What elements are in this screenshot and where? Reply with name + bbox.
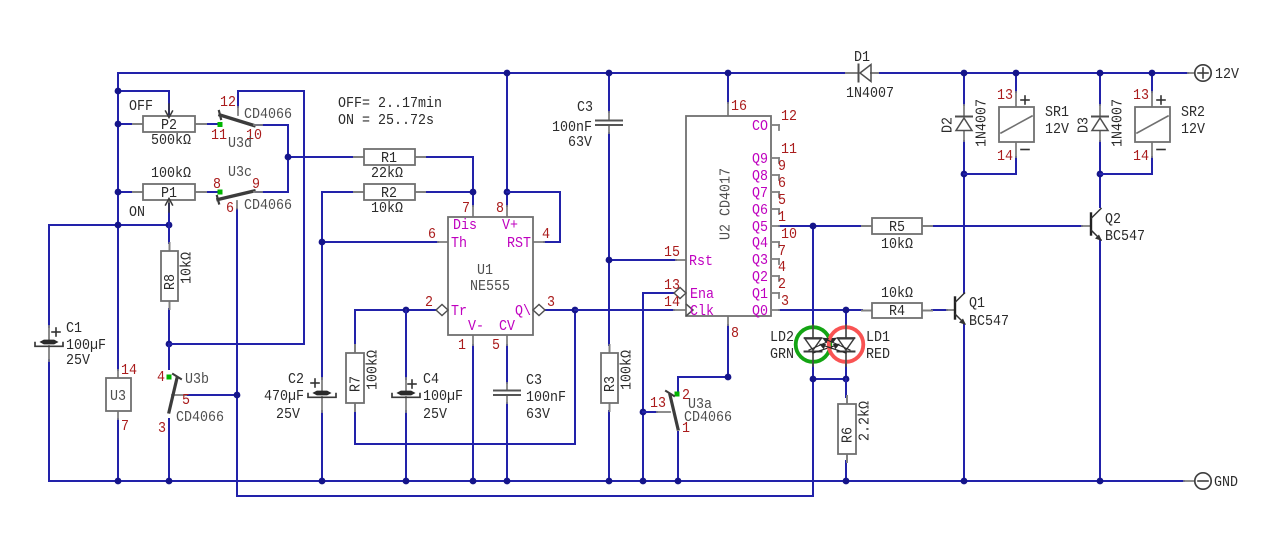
node junction (575,310) — [572, 307, 579, 314]
diode D2 1N4007 — [940, 99, 991, 147]
wire P2 right to U3d pin11 — [205, 123, 218, 125]
node junction (813,226) — [810, 223, 817, 230]
wire P1 right to U3c pin8 — [205, 191, 218, 193]
svg-text:100kΩ: 100kΩ — [151, 165, 191, 182]
wire R2 left — [322, 191, 354, 193]
wire control feed to U3d pin12 — [169, 91, 304, 344]
node junction (406,310) — [403, 307, 410, 314]
node junction (473,192) — [470, 189, 477, 196]
svg-text:U2 CD4017: U2 CD4017 — [718, 168, 735, 240]
ic U3 CD4066 power box — [106, 362, 137, 435]
svg-text:U3b: U3b — [185, 371, 209, 388]
svg-text:R3: R3 — [602, 376, 619, 392]
node junction (964,73) — [961, 70, 968, 77]
svg-text:CD4066: CD4066 — [244, 197, 292, 214]
capacitor C3 bottom 100nF — [494, 372, 566, 423]
node junction (643,481) — [640, 478, 647, 485]
svg-text:Q0: Q0 — [752, 303, 768, 320]
svg-text:100µF: 100µF — [423, 388, 463, 405]
note timing text — [338, 95, 442, 129]
node junction (507,192) — [504, 189, 511, 196]
svg-text:C2: C2 — [288, 371, 304, 388]
svg-text:500kΩ: 500kΩ — [151, 132, 191, 149]
wire SR1 top link — [1015, 73, 1017, 92]
svg-text:2.2kΩ: 2.2kΩ — [857, 401, 874, 441]
svg-text:Q4: Q4 — [752, 235, 768, 252]
node junction (846,379) — [843, 376, 850, 383]
svg-text:C3: C3 — [526, 372, 542, 389]
svg-text:C3: C3 — [577, 99, 593, 116]
resistor R6 — [838, 396, 874, 462]
wire C1 branch — [48, 225, 50, 481]
node junction (1100,481) — [1097, 478, 1104, 485]
wire GND rail — [49, 480, 1184, 482]
svg-text:R6: R6 — [840, 427, 857, 443]
svg-text:7: 7 — [778, 243, 786, 260]
resistor R5 — [862, 218, 932, 253]
svg-text:Q5: Q5 — [752, 219, 768, 236]
node junction (169,344) — [166, 341, 173, 348]
relay SR2 — [1133, 87, 1205, 165]
svg-text:C1: C1 — [66, 320, 82, 337]
wire R4 to Q1 base — [932, 309, 947, 311]
node junction (118,91) — [115, 88, 122, 95]
wire Q2 emitter to GND — [1099, 241, 1101, 481]
wire U1 pin5 CV to C3b — [506, 345, 508, 481]
node junction (678,481) — [675, 478, 682, 485]
svg-text:D3: D3 — [1076, 117, 1093, 133]
node junction (118,481) — [115, 478, 122, 485]
svg-text:25V: 25V — [276, 406, 300, 423]
resistor R3 — [601, 345, 636, 411]
node junction (322,242) — [319, 239, 326, 246]
svg-text:V-: V- — [468, 318, 484, 335]
svg-text:U1: U1 — [477, 262, 493, 279]
wire R3 bottom — [608, 411, 610, 481]
node junction (609,481) — [606, 478, 613, 485]
node junction (507,481) — [504, 478, 511, 485]
svg-text:CV: CV — [499, 318, 515, 335]
wire Th/C2 column — [321, 192, 323, 481]
node junction (473,481) — [470, 478, 477, 485]
svg-text:9: 9 — [252, 176, 260, 193]
svg-text:1N4007: 1N4007 — [974, 99, 991, 147]
node junction (964,174) — [961, 171, 968, 178]
wire P1 wiper feed — [168, 204, 170, 225]
svg-text:Q1: Q1 — [752, 286, 768, 303]
wire Q0 output — [779, 309, 862, 311]
svg-text:LD2: LD2 — [770, 329, 794, 346]
svg-text:13: 13 — [664, 277, 680, 294]
wire P2 left terminal — [118, 123, 134, 125]
wire LED cathode bar — [813, 378, 846, 380]
resistor R7 — [346, 345, 382, 411]
wire R1 right to U1 pin7 — [425, 157, 473, 206]
node junction (609,73) — [606, 70, 613, 77]
svg-text:LD1: LD1 — [866, 329, 890, 346]
svg-text:Q\: Q\ — [515, 303, 531, 320]
wire U2 pin8 to U3a pin2 — [678, 325, 728, 391]
svg-text:10kΩ: 10kΩ — [881, 285, 913, 302]
node junction (1100,174) — [1097, 171, 1104, 178]
svg-text:Th: Th — [451, 235, 467, 252]
node junction (169,225) — [166, 222, 173, 229]
svg-text:10kΩ: 10kΩ — [881, 236, 913, 253]
svg-text:GND: GND — [1214, 474, 1238, 491]
wire U3a control link — [643, 411, 657, 413]
svg-text:100kΩ: 100kΩ — [619, 350, 636, 390]
wire D2/SR1 column — [963, 73, 965, 293]
svg-text:4: 4 — [157, 369, 165, 386]
svg-text:OFF= 2..17min: OFF= 2..17min — [338, 95, 442, 112]
svg-text:R8: R8 — [162, 274, 179, 290]
relay SR1 — [997, 87, 1069, 165]
node junction (118,192) — [115, 189, 122, 196]
wire SR2 bottom link — [1100, 157, 1152, 174]
svg-text:12V: 12V — [1181, 121, 1205, 138]
svg-text:12V: 12V — [1045, 121, 1069, 138]
svg-text:RST: RST — [507, 235, 531, 252]
svg-text:9: 9 — [778, 158, 786, 175]
svg-text:OFF: OFF — [129, 98, 153, 115]
svg-text:V+: V+ — [502, 217, 518, 234]
diode D1 — [846, 49, 894, 102]
wire LED return bus y=496 — [237, 379, 813, 496]
wire +12V rail right segment — [880, 72, 1188, 74]
svg-text:12: 12 — [220, 94, 236, 111]
svg-text:Tr: Tr — [451, 303, 467, 320]
svg-text:3: 3 — [547, 294, 555, 311]
svg-text:ON: ON — [129, 204, 145, 221]
node junction (507,73) — [504, 70, 511, 77]
svg-text:13: 13 — [1133, 87, 1149, 104]
svg-text:63V: 63V — [568, 134, 592, 151]
svg-text:D2: D2 — [940, 117, 957, 133]
wire LD1 anode drop — [845, 310, 847, 379]
svg-text:Q9: Q9 — [752, 151, 768, 168]
wire U2 pin16 from rail — [727, 73, 729, 103]
svg-text:8: 8 — [731, 325, 739, 342]
node junction (1152,73) — [1149, 70, 1156, 77]
svg-text:25V: 25V — [66, 352, 90, 369]
svg-text:12V: 12V — [1215, 66, 1239, 83]
wire SR2 top link — [1151, 73, 1153, 92]
svg-text:6: 6 — [428, 226, 436, 243]
wire C4 bottom link — [405, 411, 407, 481]
resistor R2 — [354, 184, 425, 217]
svg-text:100nF: 100nF — [526, 389, 566, 406]
wire Tr feed — [355, 309, 435, 311]
op-amp U1 NE555 timer — [425, 200, 555, 354]
svg-text:10kΩ: 10kΩ — [371, 200, 403, 217]
node junction (728,73) — [725, 70, 732, 77]
svg-text:14: 14 — [1133, 148, 1149, 165]
wire V+ to RST loop — [507, 192, 560, 242]
svg-text:Dis: Dis — [453, 217, 477, 234]
node junction (322,481) — [319, 478, 326, 485]
svg-text:Q3: Q3 — [752, 252, 768, 269]
svg-text:U3d: U3d — [228, 135, 252, 152]
node junction (118,225) — [115, 222, 122, 229]
svg-text:R4: R4 — [889, 303, 905, 320]
wire C3a column — [608, 73, 610, 345]
wire R1 left — [288, 156, 354, 158]
wire R6 top link — [845, 379, 847, 397]
node junction (1100,73) — [1097, 70, 1104, 77]
svg-text:5: 5 — [182, 392, 190, 409]
svg-text:8: 8 — [496, 200, 504, 217]
wire Ena feed — [643, 292, 673, 294]
wire Clk feed — [575, 309, 674, 311]
node junction (964,481) — [961, 478, 968, 485]
svg-text:Q1: Q1 — [969, 295, 985, 312]
svg-text:470µF: 470µF — [264, 388, 304, 405]
led LD1 red — [819, 325, 890, 366]
svg-text:6: 6 — [226, 200, 234, 217]
svg-text:14: 14 — [121, 362, 137, 379]
svg-text:12: 12 — [781, 108, 797, 125]
wire R7 bottom to Q-bar — [355, 310, 575, 444]
svg-text:14: 14 — [664, 294, 680, 311]
svg-text:Rst: Rst — [689, 253, 713, 270]
svg-text:22kΩ: 22kΩ — [371, 165, 403, 182]
svg-text:3: 3 — [781, 293, 789, 310]
wire U3c pin6 drop — [236, 209, 238, 496]
svg-text:CD4066: CD4066 — [684, 409, 732, 426]
svg-text:Q2: Q2 — [1105, 211, 1121, 228]
svg-text:GRN: GRN — [770, 346, 794, 363]
potentiometer P1 — [129, 165, 206, 225]
analog switch U3c — [213, 164, 292, 217]
svg-text:1N4007: 1N4007 — [1110, 99, 1127, 147]
svg-text:100kΩ: 100kΩ — [365, 350, 382, 390]
wire Q1 emitter to GND — [963, 325, 965, 481]
svg-text:6: 6 — [778, 175, 786, 192]
svg-text:CO: CO — [752, 118, 768, 135]
wire U1 pin1 V- drop — [472, 345, 474, 481]
svg-text:RED: RED — [866, 346, 890, 363]
svg-text:Q2: Q2 — [752, 269, 768, 286]
node junction (169,481) — [166, 478, 173, 485]
transistor Q1 BC547 — [947, 293, 1009, 330]
svg-text:R5: R5 — [889, 219, 905, 236]
wire SR1 bottom link — [964, 157, 1016, 174]
wire R2 right — [425, 191, 473, 193]
svg-text:SR1: SR1 — [1045, 104, 1069, 121]
svg-text:7: 7 — [121, 418, 129, 435]
node junction (728,377) — [725, 374, 732, 381]
node junction (609,260) — [606, 257, 613, 264]
svg-text:Q8: Q8 — [752, 168, 768, 185]
svg-text:8: 8 — [213, 176, 221, 193]
svg-text:14: 14 — [997, 148, 1013, 165]
svg-text:NE555: NE555 — [470, 278, 510, 295]
svg-text:5: 5 — [778, 192, 786, 209]
wire P2 wiper feed — [118, 91, 169, 119]
potentiometer P2 — [129, 91, 206, 149]
wire R8 top link — [168, 225, 170, 243]
svg-text:CD4066: CD4066 — [244, 106, 292, 123]
node junction (643,412) — [640, 409, 647, 416]
analog switch U3b — [157, 369, 224, 437]
svg-text:4: 4 — [542, 226, 550, 243]
wire C4 top link — [405, 310, 407, 379]
svg-text:R7: R7 — [348, 376, 365, 392]
node junction (846,481) — [843, 478, 850, 485]
svg-text:BC547: BC547 — [1105, 228, 1145, 245]
svg-text:13: 13 — [650, 395, 666, 412]
wire R6 bottom to GND — [845, 461, 847, 481]
wire Rst feed — [609, 259, 676, 261]
svg-text:3: 3 — [158, 420, 166, 437]
svg-text:D1: D1 — [854, 49, 870, 66]
svg-text:2: 2 — [425, 294, 433, 311]
node junction (406,481) — [403, 478, 410, 485]
ic U2 CD4017 counter — [664, 98, 797, 342]
node junction (813,379) — [810, 376, 817, 383]
capacitor C1 100uF — [35, 320, 106, 369]
wire main left vertical bus — [117, 73, 119, 481]
node junction (1016,73) — [1013, 70, 1020, 77]
wire LD2 anode drop — [812, 226, 814, 379]
svg-text:1: 1 — [778, 209, 786, 226]
svg-text:16: 16 — [731, 98, 747, 115]
svg-text:U3: U3 — [110, 388, 126, 405]
wire U3b pin5 control — [186, 394, 237, 396]
diode D3 1N4007 — [1076, 99, 1127, 147]
svg-text:C4: C4 — [423, 371, 439, 388]
svg-text:1: 1 — [458, 337, 466, 354]
wire U3b column — [168, 344, 170, 481]
svg-text:11: 11 — [781, 141, 797, 158]
analog switch U3d — [211, 94, 292, 152]
wire U3d pin10 / U3c pin9 link — [256, 125, 288, 192]
svg-text:CD4066: CD4066 — [176, 409, 224, 426]
svg-text:U3c: U3c — [228, 164, 252, 181]
svg-text:ON = 25..72s: ON = 25..72s — [338, 112, 434, 129]
svg-text:25V: 25V — [423, 406, 447, 423]
wire ON net horizontal y=225 — [49, 224, 169, 226]
svg-text:Ena: Ena — [690, 286, 714, 303]
capacitor C3 top 100nF — [552, 99, 622, 151]
transistor Q2 BC547 — [1082, 209, 1145, 246]
wire Q-bar output — [546, 309, 575, 311]
wire P1 left terminal — [118, 191, 134, 193]
capacitor C2 470uF — [264, 371, 336, 423]
svg-text:BC547: BC547 — [969, 313, 1009, 330]
node junction (118,124) — [115, 121, 122, 128]
wire R5 to Q2 base — [932, 225, 1082, 227]
svg-text:2: 2 — [778, 276, 786, 293]
svg-text:Q6: Q6 — [752, 202, 768, 219]
wire Q5 output — [779, 225, 862, 227]
svg-text:5: 5 — [492, 337, 500, 354]
svg-text:1N4007: 1N4007 — [846, 85, 894, 102]
svg-text:63V: 63V — [526, 406, 550, 423]
svg-text:11: 11 — [211, 127, 227, 144]
wire D3/SR2 column — [1099, 73, 1101, 207]
svg-text:4: 4 — [778, 259, 786, 276]
svg-text:7: 7 — [462, 200, 470, 217]
wire R7 top link — [354, 310, 356, 345]
svg-text:10kΩ: 10kΩ — [179, 252, 196, 284]
node junction (288,157) — [285, 154, 292, 161]
wire R8 bottom link — [168, 309, 170, 344]
resistor R1 — [354, 149, 425, 182]
svg-text:Q7: Q7 — [752, 185, 768, 202]
wire Th pin6 feed — [322, 241, 438, 243]
svg-text:10: 10 — [781, 226, 797, 243]
svg-text:SR2: SR2 — [1181, 104, 1205, 121]
wire V+ drop from rail — [506, 73, 508, 206]
analog switch U3a — [650, 387, 732, 437]
wire Ena/GND column — [642, 293, 644, 481]
wire +12V rail left segment — [118, 72, 846, 74]
svg-text:15: 15 — [664, 244, 680, 261]
node junction (846,310) — [843, 307, 850, 314]
wire U3a pin1 to GND — [677, 432, 679, 481]
capacitor C4 100uF — [392, 371, 463, 423]
led LD2 green — [770, 325, 840, 366]
svg-text:P1: P1 — [161, 185, 177, 202]
power 12V terminal — [1188, 65, 1239, 83]
ground GND terminal — [1184, 473, 1238, 491]
resistor R4 — [862, 285, 932, 320]
svg-text:Clk: Clk — [690, 303, 714, 320]
node junction (237,395) — [234, 392, 241, 399]
svg-text:13: 13 — [997, 87, 1013, 104]
resistor R8 — [161, 243, 196, 309]
